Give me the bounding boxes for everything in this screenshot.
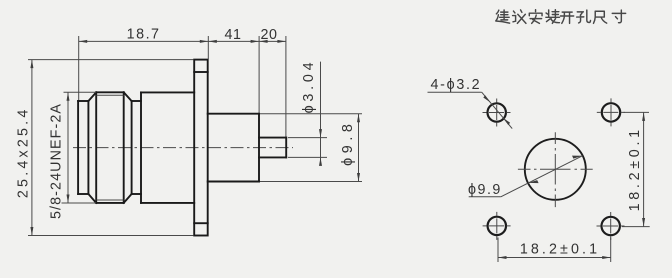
char an 安 bbox=[529, 10, 542, 24]
coupling nut / threaded section outline bbox=[78, 92, 141, 203]
svg-text:ϕ3.04: ϕ3.04 bbox=[301, 59, 317, 114]
lip bottom right bbox=[132, 193, 141, 195]
extension line pin end (20) bbox=[285, 36, 287, 137]
5/8 thread extension bottom bbox=[62, 202, 97, 204]
lip bottom left bbox=[78, 193, 88, 195]
extension line insulator end (41/20) bbox=[258, 36, 260, 113]
top dimension line bbox=[79, 40, 286, 42]
flange chamfer line top bbox=[194, 71, 208, 73]
char kai 开 bbox=[560, 12, 573, 23]
front face bbox=[77, 101, 79, 194]
vertical edge D bbox=[131, 101, 133, 194]
41 right arrow bbox=[251, 40, 260, 43]
extension to bottom dim (left) bbox=[497, 238, 499, 263]
chamfer bottom-right bbox=[124, 194, 132, 203]
extension to right dim (top) bbox=[624, 111, 649, 113]
char jian 建 bbox=[496, 10, 510, 23]
insulator dia top arrow bbox=[357, 114, 360, 123]
crosshair top-right hole bbox=[597, 98, 625, 126]
20 left arrow bbox=[259, 40, 268, 43]
insulator dia extension bottom bbox=[260, 181, 362, 183]
crest bottom bbox=[96, 202, 124, 204]
center hole phi 9.9 bbox=[525, 139, 586, 200]
chamfer top-left bbox=[88, 92, 96, 101]
25.4 bottom arrow bbox=[30, 227, 33, 236]
svg-text:25.4x25.4: 25.4x25.4 bbox=[16, 106, 32, 198]
crosshair top-left hole bbox=[483, 99, 511, 127]
svg-text:4-ϕ3.2: 4-ϕ3.2 bbox=[431, 77, 482, 93]
insulator dia bottom arrow bbox=[357, 173, 360, 182]
char zhuang 装 bbox=[546, 10, 560, 24]
rear insulator cylinder bbox=[208, 114, 259, 182]
title 建议安装开孔尺寸 (drawn strokes) bbox=[496, 10, 626, 24]
25.4 extension bottom bbox=[28, 235, 194, 237]
extension line flange rear (18.7/41) bbox=[207, 36, 209, 59]
extension to bottom dim (right) bbox=[610, 238, 612, 263]
25.4 extension top bbox=[28, 59, 194, 61]
arrowheads left view bbox=[30, 40, 360, 236]
svg-text:18.7: 18.7 bbox=[127, 27, 161, 43]
svg-text:20: 20 bbox=[261, 27, 278, 43]
char chi 尺 bbox=[593, 11, 606, 23]
crosshair bottom-left hole bbox=[483, 212, 511, 240]
pin dia extension top bbox=[288, 137, 327, 139]
arrowheads on 4-phi3.2 leader bbox=[483, 95, 510, 125]
pin dia dimension line bbox=[320, 62, 322, 166]
connector body bbox=[141, 92, 194, 202]
crosshair center hole bbox=[518, 132, 593, 207]
18.7 left arrow bbox=[79, 40, 88, 43]
char kong 孔 bbox=[577, 10, 591, 23]
arrowheads right view dims bbox=[498, 112, 645, 259]
char yi 议 bbox=[513, 10, 526, 23]
insulator dia dimension line bbox=[358, 114, 360, 182]
mounting hole bottom-right bbox=[602, 217, 620, 235]
pin dia top arrow (outside pointing down) bbox=[319, 129, 322, 138]
25.4 dimension line bbox=[31, 60, 33, 236]
vertical edge B bbox=[95, 92, 97, 203]
25.4 top arrow bbox=[30, 60, 33, 69]
vertical edge A bbox=[87, 101, 89, 194]
svg-text:ϕ9.9: ϕ9.9 bbox=[468, 182, 502, 198]
svg-text:41: 41 bbox=[225, 27, 242, 43]
41 left arrow bbox=[208, 40, 217, 43]
svg-text:5/8-24UNEF-2A: 5/8-24UNEF-2A bbox=[49, 103, 65, 219]
5/8 thread extension top bbox=[64, 91, 97, 93]
5/8 top arrow bbox=[67, 92, 70, 101]
lip top left bbox=[78, 100, 88, 102]
leader 4-phi3.2: underline and diagonal through hole bbox=[428, 92, 513, 128]
right dimension line bbox=[643, 112, 645, 226]
svg-text:ϕ9.8: ϕ9.8 bbox=[340, 120, 356, 166]
centerline (main axis) bbox=[73, 147, 293, 149]
lip top right bbox=[132, 100, 141, 102]
thread root lines (thin) bbox=[97, 94, 124, 96]
arrowheads on phi9.9 chord bbox=[528, 156, 582, 184]
chamfer top-right bbox=[124, 92, 132, 101]
char cun 寸 bbox=[612, 10, 625, 23]
mounting hole top-left bbox=[488, 103, 506, 121]
mounting hole bottom-left bbox=[488, 217, 506, 235]
extension line over nut face (18.7) bbox=[78, 36, 80, 100]
5/8 dimension line bbox=[67, 92, 69, 203]
svg-text:18.2±0.1: 18.2±0.1 bbox=[627, 126, 643, 211]
bottom dimension line bbox=[498, 257, 611, 259]
chamfer bottom-left bbox=[88, 194, 96, 203]
20 right arrow bbox=[277, 40, 286, 43]
5/8 bottom arrow bbox=[67, 195, 70, 204]
insulator dia extension top bbox=[260, 113, 362, 115]
crosshair bottom-right hole bbox=[597, 212, 625, 240]
vertical edge C bbox=[123, 92, 125, 203]
mounting hole top-right bbox=[602, 103, 620, 121]
contact pin bbox=[259, 138, 286, 158]
pin dia bottom arrow (outside pointing up) bbox=[319, 157, 322, 166]
flange plate bbox=[194, 60, 208, 236]
pin dia extension bottom bbox=[288, 156, 327, 158]
18.7 right arrow bbox=[200, 40, 209, 43]
crest top bbox=[96, 91, 124, 93]
extension to right dim (bottom) bbox=[622, 226, 650, 228]
flange chamfer line bottom bbox=[194, 222, 208, 224]
leader phi9.9: underline, diagonal chord through center hole bbox=[469, 156, 583, 197]
svg-text:18.2±0.1: 18.2±0.1 bbox=[520, 241, 600, 257]
